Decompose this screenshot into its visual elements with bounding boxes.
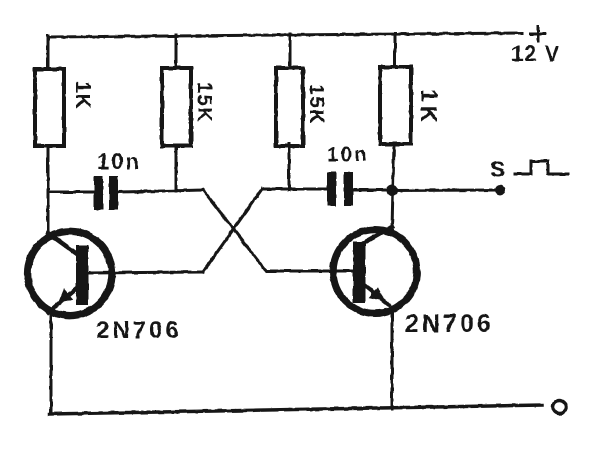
svg-text:15K: 15K: [193, 82, 215, 123]
svg-text:1K: 1K: [71, 81, 94, 110]
svg-text:2N706: 2N706: [96, 317, 182, 344]
svg-text:10n: 10n: [327, 144, 369, 166]
svg-text:1K: 1K: [416, 89, 442, 126]
svg-text:12 V: 12 V: [511, 41, 560, 66]
svg-text:S: S: [490, 156, 505, 182]
svg-text:2N706: 2N706: [405, 310, 494, 338]
svg-text:10n: 10n: [97, 149, 141, 174]
svg-text:15K: 15K: [305, 84, 327, 125]
